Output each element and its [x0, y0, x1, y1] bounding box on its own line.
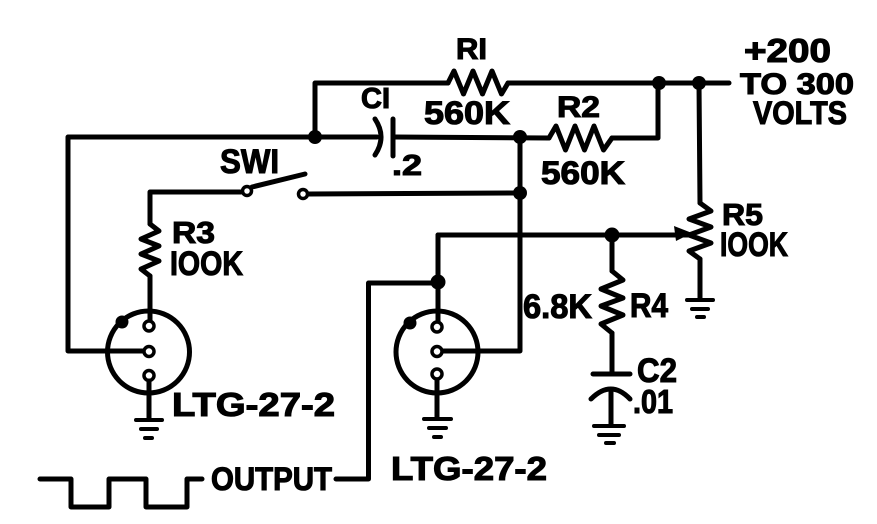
- wire SW1 left to R3 top: [150, 192, 241, 224]
- wire R5 bottom stub: [698, 259, 703, 298]
- wire top rail left with drop to node A: [315, 83, 448, 137]
- junction node E (switch wire): [513, 186, 527, 200]
- junction node A: [308, 130, 322, 144]
- wire V1 cathode stub: [147, 381, 152, 419]
- capacitor C2: [591, 374, 630, 399]
- wire output branch: [336, 283, 438, 479]
- wire grid line from V2 plate drop to R5 wiper: [438, 233, 688, 238]
- wire R1 right to supply terminal: [508, 81, 729, 86]
- ground at V2: [424, 419, 451, 437]
- svg-text:LTG-27-2: LTG-27-2: [172, 386, 335, 423]
- label supply +200 TO 300 VOLTS: [740, 32, 854, 131]
- svg-text:IOOK: IOOK: [720, 226, 788, 264]
- wire V2 plate drop: [436, 235, 441, 321]
- svg-text:OUTPUT: OUTPUT: [211, 461, 332, 497]
- junction node F (R4 / wiper wire): [605, 228, 620, 243]
- svg-text:560K: 560K: [541, 155, 625, 191]
- junction node D (top rail / R5): [692, 76, 706, 90]
- svg-text:RI: RI: [456, 33, 487, 66]
- wire R2 right up to node C: [612, 83, 658, 138]
- tube V2 LTG-27-2: [396, 311, 478, 393]
- wire C1 right plate to R2 left: [395, 137, 549, 138]
- tube V1 LTG-27-2: [108, 311, 190, 393]
- svg-text:LTG-27-2: LTG-27-2: [391, 450, 547, 487]
- svg-text:6.8K: 6.8K: [523, 288, 592, 326]
- wire R3 bottom to V1 plate pin: [148, 276, 153, 321]
- svg-text:R4: R4: [630, 287, 668, 325]
- ground at R5: [687, 300, 713, 317]
- junction node G (output tap): [431, 275, 446, 290]
- R5 wiper arrowhead: [674, 226, 692, 241]
- potentiometer R5: [689, 203, 711, 259]
- svg-text:IOOK: IOOK: [170, 245, 243, 283]
- svg-text:+200: +200: [744, 32, 831, 69]
- switch SW1: [243, 174, 308, 199]
- junction node B: [513, 130, 527, 144]
- svg-text:CI: CI: [361, 83, 390, 115]
- square wave output waveform: [40, 479, 202, 507]
- resistor R4: [601, 271, 623, 333]
- wire C2 bottom stub: [609, 391, 614, 424]
- svg-text:560K: 560K: [424, 95, 510, 131]
- resistor R3: [141, 224, 159, 276]
- svg-text:.2: .2: [392, 150, 422, 182]
- svg-text:.01: .01: [633, 383, 673, 420]
- wire left rail from node A down to V1 grid: [68, 137, 315, 351]
- capacitor C1: [375, 119, 393, 156]
- junction node C (top rail / R2): [652, 76, 666, 90]
- wire node B down to V2 grid: [443, 137, 520, 351]
- ground at C2: [594, 426, 624, 443]
- wire V2 cathode stub: [435, 380, 440, 417]
- wire R5 wiper: [617, 233, 676, 238]
- wire node D down to R5 top: [699, 83, 700, 203]
- resistor R2: [549, 126, 612, 150]
- wire node A to C1 left plate: [315, 135, 377, 140]
- ground at V1: [136, 420, 162, 438]
- wire SW1 right to node E: [309, 193, 520, 194]
- svg-text:R2: R2: [557, 91, 600, 124]
- wire R4 top lead: [610, 235, 615, 271]
- svg-text:VOLTS: VOLTS: [753, 95, 847, 131]
- svg-text:SWI: SWI: [220, 143, 279, 181]
- resistor R1: [448, 71, 508, 94]
- wire R4 bottom to C2: [610, 333, 615, 372]
